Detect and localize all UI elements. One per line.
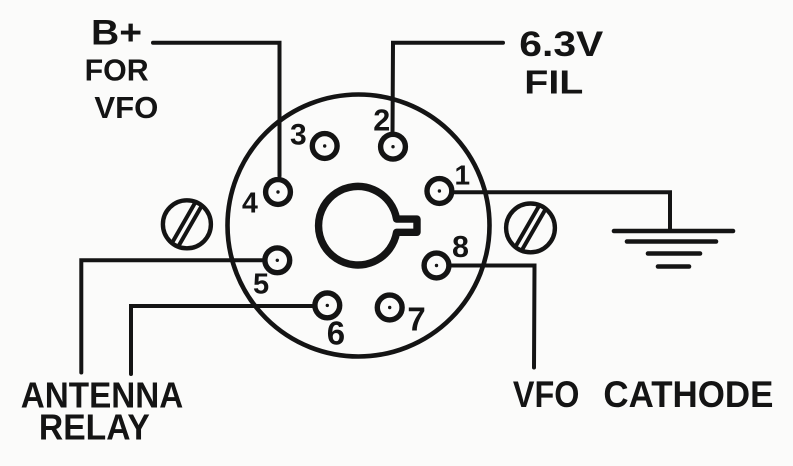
svg-text:6.3V: 6.3V [519, 25, 604, 64]
pin 7 [377, 295, 402, 320]
svg-text:8: 8 [452, 230, 469, 264]
wire pin 6 to ANTENNA RELAY [131, 306, 315, 374]
pin 8 [424, 253, 449, 278]
pin 2 [381, 134, 406, 159]
wire pin 8 to VFO CATHODE [450, 266, 535, 368]
svg-text:5: 5 [253, 269, 269, 301]
pin 4 [266, 180, 291, 205]
svg-text:VFO: VFO [513, 374, 580, 415]
center keyway hole [319, 186, 417, 265]
pin 1 [427, 179, 452, 204]
wire pin 5 to ANTENNA RELAY [81, 260, 266, 372]
svg-text:VFO: VFO [94, 90, 158, 125]
svg-text:3: 3 [290, 118, 307, 151]
svg-text:4: 4 [242, 188, 258, 220]
pin 6 [315, 293, 340, 318]
svg-text:6: 6 [327, 315, 345, 352]
svg-text:2: 2 [373, 104, 390, 138]
pin 3 [312, 134, 337, 159]
left mounting screw [163, 200, 211, 248]
svg-text:RELAY: RELAY [39, 406, 150, 447]
ground symbol [614, 231, 733, 267]
svg-text:FOR: FOR [85, 53, 149, 88]
wire B+ to pin 4 [153, 43, 280, 176]
wire 6.3V FIL to pin 2 [393, 43, 504, 135]
right mounting screw [506, 204, 555, 253]
svg-text:FIL: FIL [524, 64, 583, 101]
wire pin 1 to ground [455, 192, 670, 231]
svg-text:7: 7 [407, 301, 425, 338]
svg-text:1: 1 [455, 160, 471, 191]
svg-text:CATHODE: CATHODE [603, 374, 773, 415]
pin 5 [265, 248, 290, 273]
socket body circle [228, 95, 490, 357]
svg-text:B+: B+ [91, 13, 142, 52]
